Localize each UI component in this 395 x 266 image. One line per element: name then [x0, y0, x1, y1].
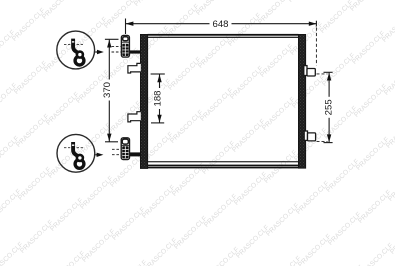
svg-text:PRASCO.CLF: PRASCO.CLF	[81, 228, 117, 264]
top fitting threads	[122, 44, 128, 56]
svg-text:PRASCO.CLF: PRASCO.CLF	[0, 135, 21, 171]
dimension 255: label	[324, 97, 334, 118]
left mounting bracket 2	[128, 112, 141, 122]
svg-text:PRASCO.CLF: PRASCO.CLF	[173, 215, 209, 251]
svg-text:PRASCO.CLF: PRASCO.CLF	[263, 149, 299, 185]
detail circle 1 icon: pipe notch	[72, 41, 74, 42]
dimension 188: top tick	[151, 73, 165, 75]
svg-text:PRASCO.CLF: PRASCO.CLF	[111, 206, 147, 242]
svg-text:PRASCO.CLF: PRASCO.CLF	[353, 83, 389, 119]
right tab 1 square part	[307, 69, 315, 77]
core top line 2	[148, 37, 299, 38]
svg-text:PRASCO.CLF: PRASCO.CLF	[287, 0, 323, 4]
dimension 188: top arrow	[157, 74, 161, 82]
svg-text:PRASCO.CLF: PRASCO.CLF	[0, 188, 23, 224]
svg-text:PRASCO.CLF: PRASCO.CLF	[49, 197, 85, 233]
dimension 255: line	[328, 73, 330, 143]
core top line 1	[148, 34, 299, 36]
right tab 2 square part	[308, 133, 316, 141]
dimension 370: label	[104, 80, 114, 101]
right tab 2 vertical part	[304, 131, 307, 140]
svg-text:PRASCO.CLF: PRASCO.CLF	[41, 0, 77, 21]
dimension 188: label	[153, 88, 163, 109]
svg-text:PRASCO.CLF: PRASCO.CLF	[19, 219, 55, 255]
svg-text:648: 648	[212, 19, 228, 30]
svg-text:PRASCO.CLF: PRASCO.CLF	[17, 166, 53, 202]
svg-text:PRASCO.CLF: PRASCO.CLF	[195, 0, 231, 17]
svg-text:PRASCO.CLF: PRASCO.CLF	[321, 52, 357, 88]
dimension 188: bottom tick	[151, 122, 164, 124]
svg-text:PRASCO.CLF: PRASCO.CLF	[201, 140, 237, 176]
detail circle 2 icon: elbow pipe	[73, 144, 79, 157]
left mounting bracket 1	[128, 63, 141, 73]
dimension 370: bottom tick	[105, 141, 118, 143]
svg-text:PRASCO.CLF: PRASCO.CLF	[267, 255, 303, 266]
detail circle 2 icon: upper ring	[77, 155, 83, 161]
svg-text:PRASCO.CLF: PRASCO.CLF	[355, 136, 391, 172]
bottom fitting separator	[122, 144, 129, 146]
svg-text:PRASCO.CLF: PRASCO.CLF	[357, 189, 393, 225]
leader dashes bottom fitting lower	[112, 154, 121, 156]
svg-text:PRASCO.CLF: PRASCO.CLF	[199, 87, 235, 123]
leader dashes top fitting upper	[112, 45, 121, 47]
detail circle 1	[57, 31, 95, 69]
bottom fitting threads	[122, 146, 128, 158]
left header bar	[140, 34, 147, 168]
detail circle 1 icon: elbow pipe	[73, 41, 79, 54]
svg-text:PRASCO.CLF: PRASCO.CLF	[261, 96, 297, 132]
detail circle 2 arrow	[95, 154, 99, 156]
svg-text:PRASCO.CLF: PRASCO.CLF	[327, 211, 363, 247]
svg-text:PRASCO.CLF: PRASCO.CLF	[259, 43, 295, 79]
svg-text:PRASCO.CLF: PRASCO.CLF	[257, 0, 293, 26]
svg-text:PRASCO.CLF: PRASCO.CLF	[79, 175, 115, 211]
svg-text:PRASCO.CLF: PRASCO.CLF	[291, 74, 327, 110]
top fitting connecting bar	[129, 50, 140, 53]
svg-text:PRASCO.CLF: PRASCO.CLF	[13, 60, 49, 96]
svg-text:PRASCO.CLF: PRASCO.CLF	[205, 246, 241, 266]
svg-text:PRASCO.CLF: PRASCO.CLF	[143, 237, 179, 266]
detail circle 1 icon: lower ring	[75, 56, 84, 65]
detail circle 1 icon: upper ring	[77, 52, 83, 58]
svg-text:PRASCO.CLF: PRASCO.CLF	[359, 242, 395, 266]
svg-text:PRASCO.CLF: PRASCO.CLF	[141, 184, 177, 220]
bottom fitting connecting bar	[130, 152, 141, 156]
detail circle 1 arrow	[95, 51, 99, 53]
bottom fitting block	[121, 138, 129, 160]
dimension 370: bottom arrow	[107, 134, 111, 142]
svg-text:PRASCO.CLF: PRASCO.CLF	[203, 193, 239, 229]
svg-text:PRASCO.CLF: PRASCO.CLF	[113, 259, 149, 266]
svg-text:PRASCO.CLF: PRASCO.CLF	[233, 171, 269, 207]
svg-text:PRASCO.CLF: PRASCO.CLF	[0, 241, 25, 266]
svg-text:370: 370	[102, 82, 113, 98]
svg-text:PRASCO.CLF: PRASCO.CLF	[73, 16, 109, 52]
detail circle 2	[57, 134, 95, 172]
leader dashes bottom fitting upper	[112, 148, 121, 150]
bottom fitting port	[122, 139, 128, 144]
leader dashes top fitting lower	[112, 51, 121, 53]
core bottom thin line	[148, 161, 299, 162]
svg-text:PRASCO.CLF: PRASCO.CLF	[0, 0, 15, 12]
detail circle 2 icon: centerline dashes	[64, 147, 70, 149]
right tab 1 vertical part	[304, 66, 307, 76]
svg-text:PRASCO.CLF: PRASCO.CLF	[289, 21, 325, 57]
dimension 370: top arrow	[107, 40, 111, 48]
svg-text:PRASCO.CLF: PRASCO.CLF	[235, 224, 271, 260]
svg-text:PRASCO.CLF: PRASCO.CLF	[319, 0, 355, 35]
core bottom band line 1	[148, 165, 299, 167]
svg-text:188: 188	[152, 90, 163, 106]
svg-text:PRASCO.CLF: PRASCO.CLF	[351, 30, 387, 66]
svg-text:PRASCO.CLF: PRASCO.CLF	[265, 202, 301, 238]
svg-text:PRASCO.CLF: PRASCO.CLF	[169, 109, 205, 145]
svg-text:PRASCO.CLF: PRASCO.CLF	[231, 118, 267, 154]
dimension 648: extension line right	[315, 21, 317, 27]
dimension 255: bottom tick	[324, 142, 333, 144]
dimension 648: left arrow	[126, 22, 134, 26]
svg-text:PRASCO.CLF: PRASCO.CLF	[349, 0, 385, 13]
detail circle 1 icon: centerline dashes	[64, 43, 70, 45]
svg-text:255: 255	[324, 99, 335, 115]
svg-text:PRASCO.CLF: PRASCO.CLF	[133, 0, 169, 8]
dimension 255: top arrow	[327, 73, 331, 81]
dimension 370: line	[108, 40, 110, 142]
top fitting separator	[122, 41, 129, 43]
svg-text:PRASCO.CLF: PRASCO.CLF	[15, 113, 51, 149]
svg-text:PRASCO.CLF: PRASCO.CLF	[167, 56, 203, 92]
svg-text:PRASCO.CLF: PRASCO.CLF	[0, 82, 19, 118]
dimension 188: line	[159, 74, 161, 122]
svg-text:PRASCO.CLF: PRASCO.CLF	[11, 7, 47, 43]
svg-text:PRASCO.CLF: PRASCO.CLF	[45, 91, 81, 127]
dimension 648: line	[126, 23, 316, 25]
dimension 188: bottom arrow	[157, 115, 161, 123]
core bottom band line 2	[148, 167, 299, 168]
dimension 648: extension line left	[125, 19, 127, 35]
top fitting block	[121, 35, 129, 57]
dimension 255: top tick	[324, 71, 333, 73]
svg-text:PRASCO.CLF: PRASCO.CLF	[197, 34, 233, 70]
svg-text:PRASCO.CLF: PRASCO.CLF	[297, 233, 333, 266]
svg-text:PRASCO.CLF: PRASCO.CLF	[227, 12, 263, 48]
dimension 255: leader dashes top	[317, 73, 328, 75]
svg-text:PRASCO.CLF: PRASCO.CLF	[51, 250, 87, 266]
dimension 255: leader dashes bottom	[317, 140, 328, 142]
svg-text:PRASCO.CLF: PRASCO.CLF	[0, 29, 17, 65]
right header bar	[298, 34, 305, 168]
svg-text:PRASCO.CLF: PRASCO.CLF	[325, 158, 361, 194]
dimension 255: bottom arrow	[327, 134, 331, 142]
dimension 370: top tick	[105, 38, 119, 40]
detail circle 2 icon: pipe notch	[72, 145, 74, 146]
top fitting port	[123, 37, 128, 41]
detail circle 2 icon: lower ring	[75, 160, 84, 169]
dimension 648: right arrow	[309, 22, 317, 26]
svg-text:PRASCO.CLF: PRASCO.CLF	[229, 65, 265, 101]
svg-text:PRASCO.CLF: PRASCO.CLF	[295, 180, 331, 216]
dimension 648: label	[210, 19, 232, 29]
svg-text:PRASCO.CLF: PRASCO.CLF	[165, 3, 201, 39]
